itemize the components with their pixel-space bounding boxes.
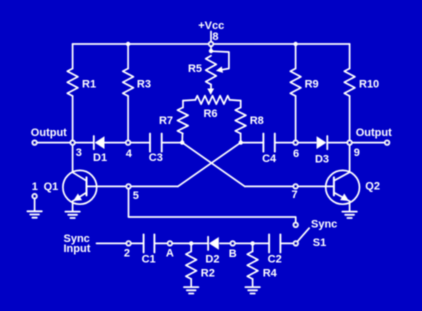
svg-text:R1: R1 [82,78,96,90]
svg-text:C4: C4 [262,153,277,165]
svg-text:6: 6 [293,148,299,160]
svg-text:Output: Output [356,127,392,139]
svg-text:1: 1 [32,181,38,193]
svg-text:9: 9 [354,147,360,159]
svg-text:R9: R9 [305,78,319,90]
svg-text:7: 7 [292,189,298,201]
svg-text:2: 2 [124,248,130,260]
svg-text:4: 4 [126,148,133,160]
svg-text:S1: S1 [313,237,326,249]
svg-text:+Vcc: +Vcc [198,20,224,32]
svg-text:Input: Input [64,243,91,255]
svg-text:C1: C1 [142,254,156,266]
svg-text:8: 8 [212,31,218,43]
svg-text:C2: C2 [268,253,282,265]
svg-text:Output: Output [31,127,67,139]
svg-text:D2: D2 [205,254,219,266]
svg-text:D3: D3 [315,153,329,165]
svg-text:R5: R5 [188,63,202,75]
svg-text:Q2: Q2 [365,181,380,193]
svg-text:D1: D1 [93,152,107,164]
svg-text:R2: R2 [201,267,215,279]
svg-text:R8: R8 [250,115,264,127]
svg-text:3: 3 [76,147,82,159]
svg-text:Q1: Q1 [44,181,59,193]
svg-text:A: A [166,248,174,260]
svg-text:R7: R7 [159,115,173,127]
svg-text:5: 5 [133,190,139,202]
svg-text:C3: C3 [149,152,163,164]
svg-text:R10: R10 [359,78,379,90]
svg-text:B: B [229,248,237,260]
svg-text:Sync: Sync [311,219,337,231]
svg-text:R3: R3 [137,78,151,90]
svg-text:R6: R6 [203,108,217,120]
svg-text:R4: R4 [263,267,278,279]
